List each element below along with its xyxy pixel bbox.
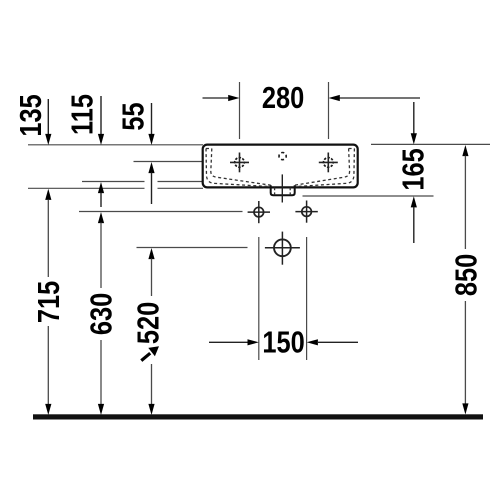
dimension 135 top arrow bbox=[45, 99, 51, 145]
dimension 150 extension left bbox=[258, 237, 260, 360]
center line bbox=[281, 174, 283, 202]
svg-text:135: 135 bbox=[14, 94, 49, 136]
svg-text:850: 850 bbox=[449, 254, 484, 296]
dimension 165 top arrow bbox=[411, 102, 417, 144]
dimension 150 left arrow bbox=[209, 339, 259, 345]
svg-text:55: 55 bbox=[116, 102, 151, 130]
mounting hole left bbox=[248, 201, 270, 223]
siphon hole bbox=[265, 232, 300, 265]
dimension 165 bottom arrow bbox=[411, 196, 417, 243]
adjustable height bent arrow bbox=[141, 346, 159, 360]
dimension 55 bottom arrow bbox=[148, 162, 154, 204]
basin inner right wedge (dashed) bbox=[295, 149, 355, 187]
reference line E (165 level) bbox=[303, 195, 434, 197]
dimension 715 line with arrows bbox=[45, 189, 51, 415]
svg-text:150: 150 bbox=[262, 325, 304, 360]
dimension 520 line with arrows bbox=[148, 248, 154, 415]
faucet hole left bbox=[230, 153, 249, 173]
dimension 115 top arrow bbox=[98, 96, 104, 145]
overflow hole (dashed circle) bbox=[279, 153, 286, 160]
dimension 115 bottom arrow bbox=[98, 182, 104, 207]
washbasin outer outline bbox=[203, 145, 358, 188]
svg-text:715: 715 bbox=[31, 281, 66, 323]
dimension 280 left arrow bbox=[203, 95, 240, 101]
svg-text:115: 115 bbox=[65, 94, 100, 135]
reference line A left (rim level) bbox=[28, 144, 203, 146]
svg-text:520: 520 bbox=[131, 302, 166, 344]
svg-text:280: 280 bbox=[262, 81, 304, 116]
reference line A right (rim level) bbox=[371, 143, 490, 145]
mounting hole right bbox=[295, 201, 317, 223]
dimension 280 extension right bbox=[328, 82, 330, 139]
reference line 520 level bbox=[137, 247, 248, 249]
faucet hole right bbox=[319, 153, 338, 173]
svg-text:165: 165 bbox=[396, 148, 431, 190]
basin inner left wedge (dashed) bbox=[206, 149, 271, 187]
dimension 280 right arrow bbox=[329, 95, 421, 101]
dimension 630 line with arrows bbox=[98, 212, 104, 415]
ground line bbox=[33, 414, 483, 419]
reference line B (55 level) bbox=[134, 161, 204, 163]
dimension 150 extension right bbox=[306, 237, 308, 360]
svg-text:630: 630 bbox=[84, 293, 119, 335]
drain box inner dashes bbox=[275, 188, 291, 195]
reference line 630 level bbox=[79, 211, 243, 213]
dimension 850 line with arrows bbox=[462, 145, 468, 415]
reference line C (115 level) bbox=[82, 181, 203, 183]
dimension 55 top arrow bbox=[148, 103, 154, 145]
dimension 280 extension left bbox=[239, 82, 241, 139]
drain box bbox=[271, 185, 295, 195]
dimension 150 right arrow bbox=[307, 339, 358, 345]
reference line D (135 level) bbox=[28, 187, 203, 189]
